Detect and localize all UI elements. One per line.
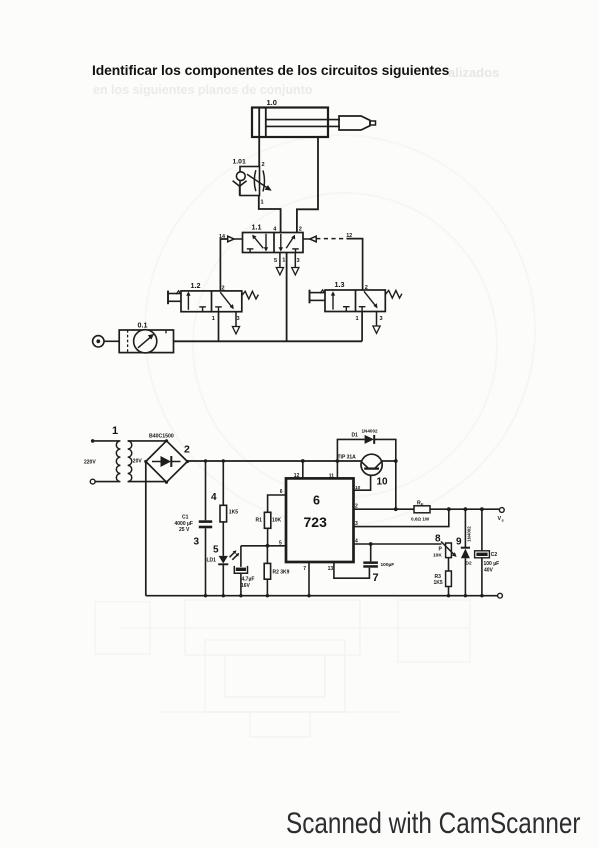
pin 13 wire to capacitor 7	[328, 562, 370, 578]
svg-text:13: 13	[328, 566, 334, 572]
svg-text:10K: 10K	[272, 518, 282, 524]
zener diode D2 1N4002 (9)	[456, 509, 472, 596]
svg-text:D1: D1	[352, 433, 359, 439]
wire pot to R3	[448, 558, 450, 571]
svg-text:3: 3	[355, 521, 358, 527]
svg-text:B40C1500: B40C1500	[149, 434, 174, 440]
capacitor C2 100uF 40V	[475, 509, 500, 596]
transistor TIP31A (10)	[338, 454, 389, 487]
svg-text:5: 5	[274, 258, 277, 264]
plunger actuator of valve 1.3	[310, 290, 326, 304]
svg-text:3: 3	[237, 316, 240, 322]
svg-text:P: P	[439, 547, 443, 553]
exhaust port 3 of valve 1.1	[292, 253, 300, 275]
svg-text:1.2: 1.2	[191, 281, 201, 290]
svg-text:220V: 220V	[84, 460, 96, 466]
svg-text:16V: 16V	[241, 583, 251, 589]
output terminal Vs	[498, 508, 505, 523]
pin 6 label	[280, 489, 283, 495]
svg-text:4000 µF: 4000 µF	[175, 521, 193, 527]
pin 12	[294, 461, 303, 479]
svg-text:9: 9	[456, 537, 462, 548]
svg-text:723: 723	[304, 514, 328, 530]
svg-text:100 µF: 100 µF	[484, 561, 500, 567]
svg-text:1: 1	[112, 425, 118, 437]
capacitor C1 4000uF (3)	[175, 461, 213, 596]
svg-text:5: 5	[279, 541, 282, 547]
svg-text:s: s	[502, 518, 505, 523]
wire pin 5 net	[241, 545, 286, 547]
resistor 1K5 (4)	[211, 461, 238, 556]
svg-text:2: 2	[299, 227, 302, 233]
svg-text:1: 1	[282, 258, 285, 264]
air service unit 0.1	[119, 321, 173, 353]
svg-text:2: 2	[262, 162, 265, 168]
pin 7 wire to ground	[303, 562, 309, 596]
bridge rectifier B40C1500 (2)	[144, 434, 190, 484]
wire pilot 12 to valve 1.3 port 2	[347, 239, 368, 291]
svg-text:20V: 20V	[133, 459, 143, 465]
ground rail wire	[146, 595, 498, 597]
svg-text:4: 4	[211, 492, 217, 503]
pin 2 wire / output line	[354, 504, 500, 510]
svg-text:2: 2	[184, 444, 190, 456]
svg-text:2: 2	[355, 504, 358, 510]
spring of valve 1.3	[385, 290, 402, 298]
svg-text:7: 7	[303, 566, 306, 572]
pilot port 12 of valve 1.1	[303, 233, 352, 242]
svg-text:R2 3K9: R2 3K9	[273, 569, 290, 575]
svg-text:0.1: 0.1	[138, 321, 148, 330]
svg-text:1K5: 1K5	[229, 510, 238, 516]
CamScanner watermark	[286, 807, 580, 841]
svg-text:8: 8	[435, 534, 441, 545]
svg-text:100µF: 100µF	[381, 562, 395, 568]
pin 5 label	[279, 541, 282, 547]
svg-text:4,7µF: 4,7µF	[242, 577, 255, 583]
wire cylinder left port to valve 1.01	[259, 137, 264, 168]
pin 11	[329, 461, 338, 480]
svg-text:10K: 10K	[433, 552, 442, 558]
wire valve 1.2 port 1 to supply rail	[212, 312, 219, 342]
pilot port 14 of valve 1.1	[219, 234, 243, 242]
wire secondary to bridge	[128, 441, 167, 482]
faint bleed arcs	[145, 135, 535, 525]
svg-text:5: 5	[213, 545, 219, 556]
junction dots V+ rail	[204, 459, 398, 463]
capacitor 100uF (7)	[363, 544, 394, 584]
cylinder 1.0	[252, 98, 376, 137]
svg-text:1.0: 1.0	[267, 98, 277, 107]
svg-text:1.01: 1.01	[233, 159, 246, 166]
svg-text:3: 3	[194, 537, 200, 548]
resistor R2 3K9	[264, 546, 289, 596]
svg-text:1K5: 1K5	[434, 580, 443, 586]
pin 10 wire to transistor base	[354, 469, 371, 491]
svg-text:1: 1	[261, 200, 264, 206]
svg-text:3: 3	[380, 316, 383, 322]
svg-text:1.1: 1.1	[252, 223, 262, 232]
svg-text:4: 4	[355, 538, 358, 544]
faint bleed-through text line 2	[93, 83, 312, 97]
flow control valve 1.01	[233, 159, 272, 206]
svg-text:7: 7	[373, 572, 379, 584]
wire valve 1.01 to valve 1.1 port 4	[259, 196, 281, 233]
faint bleed mechanical drawing	[95, 600, 470, 737]
pin 4 wire	[354, 538, 442, 544]
svg-text:1: 1	[212, 316, 215, 322]
svg-text:R3: R3	[435, 574, 442, 580]
svg-text:1.3: 1.3	[335, 280, 345, 289]
svg-text:25 V: 25 V	[179, 527, 190, 533]
faint bleed-through text right	[448, 65, 499, 80]
svg-text:10: 10	[355, 485, 361, 491]
title	[92, 62, 449, 78]
svg-text:1: 1	[356, 316, 359, 322]
svg-text:11: 11	[329, 474, 335, 480]
svg-text:3: 3	[297, 258, 300, 264]
capacitor 4,7uF 16V	[234, 546, 254, 596]
exhaust port 3 of valve 1.2	[232, 312, 239, 334]
exhaust port 3 of valve 1.3	[373, 312, 383, 334]
wire cylinder right port to valve 1.1 port 2	[297, 137, 318, 233]
spring of valve 1.2	[242, 291, 259, 299]
svg-text:6: 6	[280, 489, 283, 495]
svg-text:TIP 31A: TIP 31A	[338, 455, 357, 461]
resistor RE 0,6 ohm 1W	[411, 501, 430, 522]
wire V+ rail	[187, 460, 395, 462]
valve 1.2 (3/2 push)	[181, 281, 242, 312]
svg-text:C1: C1	[182, 515, 189, 521]
output terminal ground	[498, 593, 503, 598]
wire bridge negative to ground rail	[145, 462, 147, 596]
svg-text:R1: R1	[256, 518, 263, 524]
pin 3 sense wire	[354, 509, 449, 527]
svg-text:40V: 40V	[484, 568, 494, 574]
svg-text:D2: D2	[466, 561, 472, 567]
svg-text:10: 10	[377, 477, 389, 488]
wire pilot 14 to valve 1.2 port 2	[220, 239, 227, 291]
transformer T1 (1)	[84, 425, 142, 484]
junction dots ground rail	[204, 594, 484, 597]
svg-text:1N4002: 1N4002	[467, 526, 472, 542]
IC 723 (6)	[286, 478, 354, 562]
LED LD1 (5)	[207, 545, 240, 596]
svg-text:0,6Ω 1W: 0,6Ω 1W	[411, 517, 430, 522]
plunger actuator of valve 1.2	[168, 291, 181, 305]
svg-text:12: 12	[294, 473, 300, 479]
supply rail wire	[174, 340, 363, 342]
svg-text:LD1: LD1	[207, 558, 217, 564]
svg-text:C2: C2	[491, 552, 498, 558]
junction dots output line	[266, 507, 484, 547]
resistor R3 1K5	[434, 571, 452, 596]
wire valve 1.1 port 1 to supply rail	[282, 253, 286, 342]
potentiometer P 10K (8)	[433, 534, 457, 559]
resistor R1 10K	[256, 495, 287, 546]
valve 1.1 (5/2)	[243, 223, 304, 253]
svg-text:6: 6	[313, 494, 320, 508]
svg-text:4: 4	[273, 227, 277, 233]
wire valve 1.3 port 1 to supply rail	[356, 312, 363, 342]
svg-text:1N4002: 1N4002	[362, 429, 379, 434]
diode D1 1N4002	[337, 429, 395, 510]
valve 1.3 (3/2 push)	[325, 280, 385, 312]
exhaust port 5 of valve 1.1	[274, 253, 284, 275]
air supply source	[93, 336, 120, 347]
